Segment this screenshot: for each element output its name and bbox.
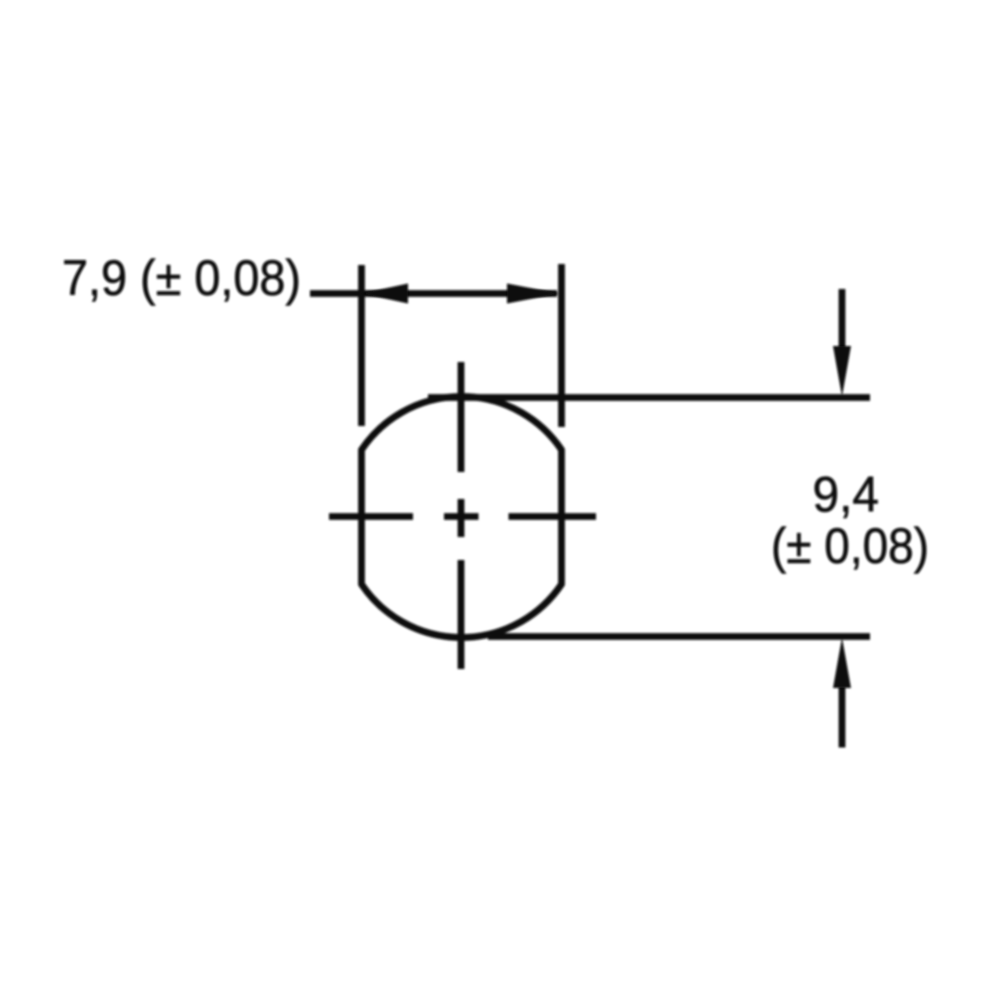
top height leader line bbox=[428, 394, 870, 401]
left extension line of width dimension bbox=[358, 265, 365, 426]
up arrow stem (lower right) bbox=[839, 686, 846, 748]
horizontal centerline right segment bbox=[509, 513, 597, 520]
svg-text:7,9 (± 0,08): 7,9 (± 0,08) bbox=[62, 250, 301, 306]
horizontal centerline center-cross segment bbox=[444, 513, 479, 520]
height dimension down arrowhead bbox=[833, 346, 851, 397]
svg-text:(± 0,08): (± 0,08) bbox=[771, 518, 929, 574]
svg-text:9,4: 9,4 bbox=[813, 467, 880, 523]
right extension line of width dimension bbox=[558, 264, 565, 427]
bottom height leader line bbox=[488, 633, 870, 640]
vertical centerline lower segment bbox=[458, 560, 465, 669]
double-D cutout outline bbox=[362, 397, 562, 638]
height dimension up arrowhead bbox=[833, 638, 851, 689]
width dimension line with text leader bbox=[310, 290, 557, 297]
vertical centerline center-cross segment bbox=[458, 499, 465, 537]
vertical centerline upper segment bbox=[458, 362, 465, 472]
horizontal centerline left segment bbox=[329, 513, 413, 520]
width dimension right arrowhead bbox=[507, 284, 559, 304]
width dimension left arrowhead bbox=[362, 284, 408, 304]
down arrow stem (upper right) bbox=[839, 289, 846, 352]
